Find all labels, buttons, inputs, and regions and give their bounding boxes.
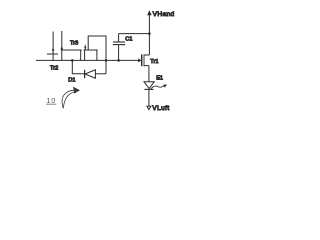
transistor Tr3 left half [61, 31, 82, 60]
figure callout 10 [46, 96, 56, 105]
wire D1 cathode branch [72, 60, 84, 73]
ground arrow VLuft [147, 106, 151, 109]
power rail arrow VHaupt [147, 10, 152, 33]
svg-text:Tr1: Tr1 [150, 59, 158, 65]
svg-text:C1: C1 [125, 37, 132, 43]
transistor Tr2 [47, 32, 58, 61]
LED E1 [144, 82, 154, 106]
svg-text:VLuft: VLuft [152, 105, 169, 112]
svg-text:10: 10 [46, 96, 56, 105]
wire top horizontal from C1 to supply [119, 33, 150, 35]
node junction D1 tap [71, 59, 74, 62]
wire main bus [36, 59, 139, 61]
wire D1 anode riser [105, 60, 107, 73]
diode D1 [85, 70, 106, 78]
figure arrow swoosh [62, 87, 80, 109]
node junction supply and top wire [148, 32, 151, 35]
svg-text:Tr3: Tr3 [70, 40, 78, 46]
wire gate loop of Tr3 [88, 36, 106, 60]
svg-text:VHand: VHand [153, 11, 175, 18]
LED emission arrow [151, 84, 167, 89]
node junction C1 and bus [117, 59, 120, 62]
wire supply vertical [148, 34, 150, 55]
svg-text:D1: D1 [68, 78, 75, 84]
node junction loop and bus [105, 59, 108, 62]
capacitor C1 [113, 34, 125, 61]
svg-text:E1: E1 [156, 75, 163, 81]
transistor Tr3 right half [83, 45, 97, 61]
transistor Tr1 [138, 54, 149, 81]
svg-text:Tr2: Tr2 [50, 66, 58, 72]
